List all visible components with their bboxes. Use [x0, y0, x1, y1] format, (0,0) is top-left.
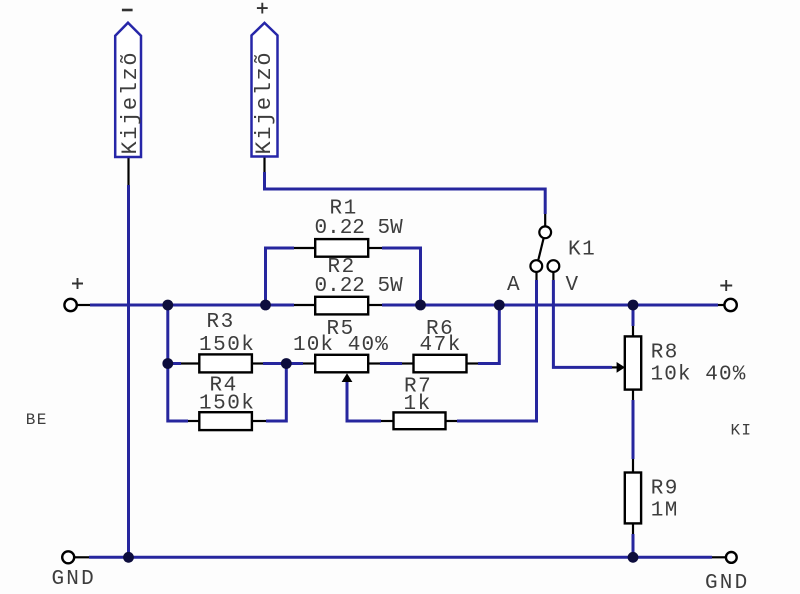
pin R4 right [252, 420, 266, 422]
connector J2 Kijelzo plus body [252, 23, 278, 157]
terminal KI+ [724, 299, 736, 311]
resistor R3 body [199, 354, 252, 372]
pin R3 left [181, 362, 199, 364]
label plus left terminal [72, 278, 83, 289]
resistor R6 body [414, 355, 467, 373]
svg-text:GND: GND [705, 572, 749, 594]
pin connector1 bottom [127, 157, 129, 185]
pin gnd right terminal [712, 556, 725, 558]
svg-text:1k: 1k [404, 393, 432, 416]
junction R3/R4/R5 node [281, 358, 292, 369]
resistor R2 body [315, 297, 368, 315]
junction R3 left [162, 358, 173, 369]
wire R4 right up to node [266, 364, 286, 422]
pin R6 right [467, 362, 479, 364]
resistor R4 body [199, 412, 252, 430]
wire connector1 down to gnd [127, 185, 130, 557]
pin left terminal [77, 304, 90, 306]
label plus connector2 [257, 3, 268, 14]
wire R3 right to node [263, 362, 303, 365]
pin R9 bottom [632, 523, 634, 534]
svg-text:R3: R3 [207, 311, 235, 334]
pin R8 wiper stub [612, 366, 618, 368]
pin R1 left [294, 247, 315, 249]
pin R7 left [381, 420, 394, 422]
junction gnd/R9 [628, 552, 639, 563]
pin R2 right [368, 304, 382, 306]
svg-text:K1: K1 [568, 239, 596, 262]
svg-text:R9: R9 [651, 478, 679, 501]
pin R8 bottom [632, 390, 634, 400]
pin switch top [544, 214, 546, 226]
wire R5 to R6 [380, 362, 402, 365]
wire R6 right up to bus [478, 305, 499, 364]
svg-text:1M: 1M [651, 500, 679, 523]
potentiometer R5 body [315, 355, 368, 373]
potentiometer R8 body [625, 336, 641, 389]
pin R3 right [252, 362, 263, 364]
svg-text:Kijelzõ: Kijelzõ [252, 51, 277, 155]
junction main/R1 right [415, 300, 426, 311]
switch K1 lever [538, 238, 543, 260]
wire R1 right branch [382, 248, 421, 305]
terminal GND right [726, 552, 737, 563]
junction main/R8 [628, 300, 639, 311]
wire R7 right up to switch A [457, 280, 537, 421]
wire main bus left [90, 304, 294, 307]
potentiometer R8 wiper arrow [617, 362, 625, 373]
pin R1 right [368, 247, 382, 249]
junction main/R3 [162, 300, 173, 311]
pin connector2 bottom [263, 157, 265, 173]
wire bus to R8 top [632, 305, 635, 326]
switch K1 contact V [548, 260, 560, 272]
pin R2 left [294, 304, 315, 306]
wire gnd bus [89, 556, 712, 559]
wire R8 bottom to R9 top [632, 400, 635, 459]
label minus connector1 [122, 9, 133, 12]
svg-text:10k 40%: 10k 40% [293, 334, 389, 357]
svg-text:V: V [566, 274, 580, 297]
svg-text:Kijelzõ: Kijelzõ [118, 51, 143, 155]
pin right terminal [718, 304, 724, 306]
connector J1 Kijelzo minus body [115, 23, 141, 157]
resistor R9 body [625, 473, 641, 524]
pin R8 top [632, 326, 634, 336]
svg-text:150k: 150k [199, 334, 255, 357]
svg-text:R8: R8 [651, 342, 679, 365]
resistor R1 body [315, 239, 368, 257]
svg-text:10k 40%: 10k 40% [651, 364, 747, 387]
junction gnd/connector1 [123, 552, 134, 563]
svg-text:KI: KI [731, 422, 753, 440]
pin R5 right [368, 362, 380, 364]
switch K1 common contact [539, 226, 551, 238]
resistor R7 body [394, 412, 446, 429]
svg-text:0.22 5W: 0.22 5W [315, 217, 404, 240]
terminal GND left [62, 551, 74, 563]
wire connector2 to switch [265, 172, 546, 214]
pin R4 left [188, 420, 199, 422]
switch K1 contact A [530, 260, 542, 272]
svg-text:47k: 47k [420, 334, 462, 357]
wire R1 left branch [266, 248, 295, 305]
terminal BE+ [64, 299, 76, 311]
pin R6 left [402, 362, 414, 364]
wire V terminal to R8 wiper [553, 280, 612, 367]
potentiometer R5 wiper arrow [342, 373, 353, 382]
pin R5 left [303, 362, 315, 364]
pin R9 top [632, 459, 634, 473]
svg-text:BE: BE [26, 411, 48, 429]
wire R9 bottom to gnd [632, 534, 635, 557]
label plus right terminal [720, 280, 732, 291]
svg-text:A: A [507, 274, 521, 297]
svg-text:GND: GND [52, 568, 96, 591]
pin switch A [535, 272, 537, 280]
svg-text:0.22 5W: 0.22 5W [315, 275, 404, 298]
wire main bus right [382, 304, 718, 307]
wire R5 wiper to R7 [347, 382, 381, 421]
pin R7 right [446, 420, 458, 422]
pin gnd left terminal [75, 556, 90, 558]
junction main/R1 left [260, 300, 271, 311]
pin switch V [552, 272, 554, 280]
svg-text:150k: 150k [199, 393, 255, 416]
wire R3/R4 left branch [168, 305, 188, 421]
wire R3 left tap [168, 362, 181, 365]
junction main/R6 [494, 300, 505, 311]
